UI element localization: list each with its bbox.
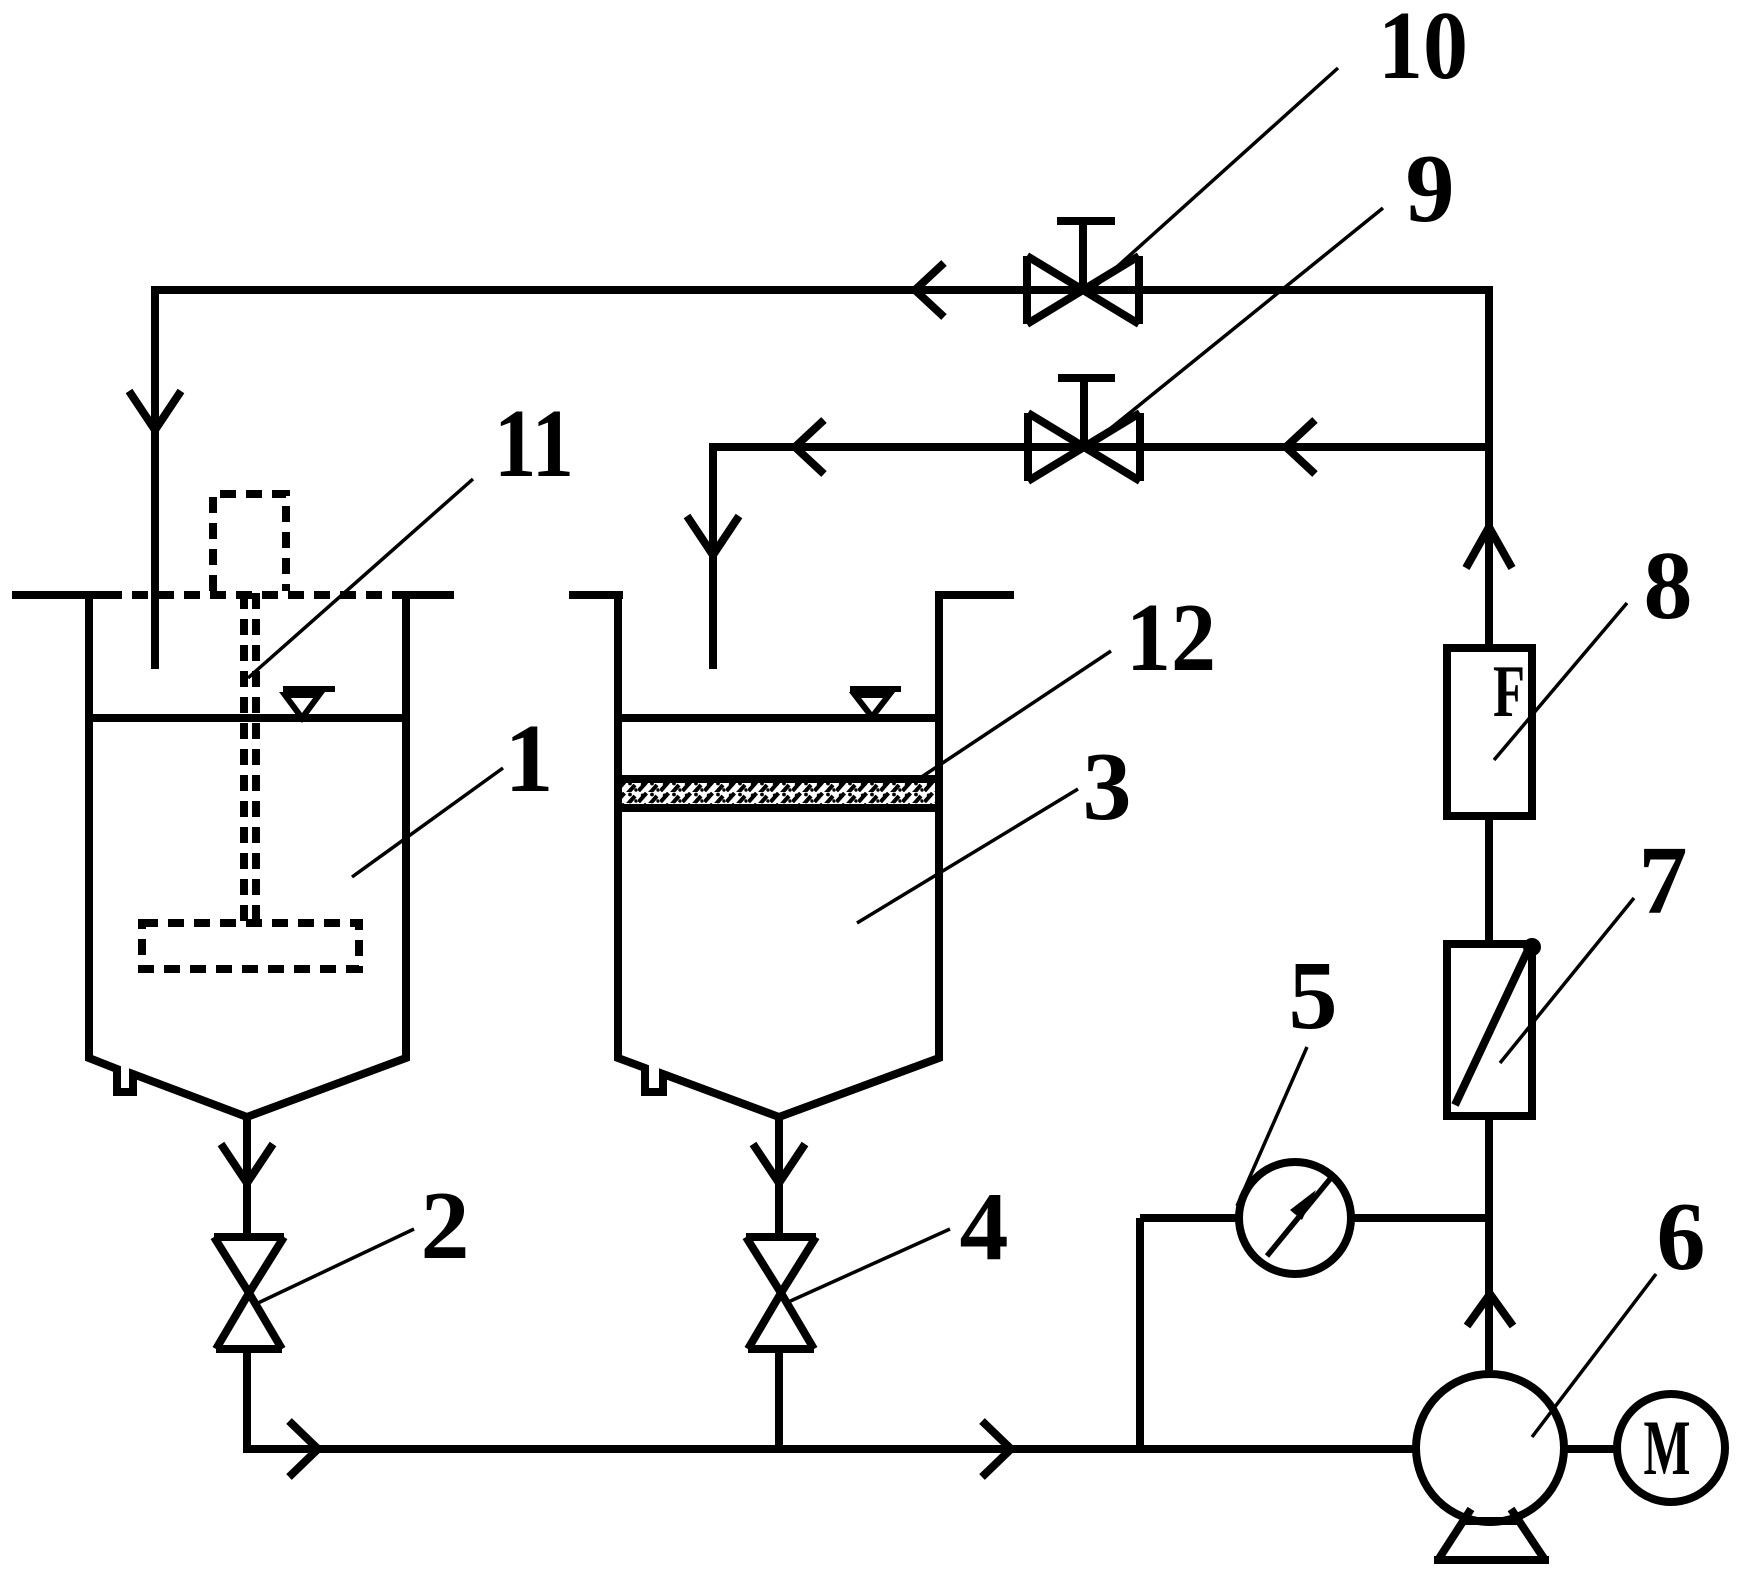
svg-text:F: F [1493, 651, 1525, 733]
svg-text:7: 7 [1639, 827, 1688, 935]
svg-text:4: 4 [960, 1173, 1009, 1281]
svg-text:3: 3 [1083, 733, 1132, 841]
svg-text:1: 1 [505, 705, 554, 813]
svg-text:11: 11 [494, 390, 574, 498]
svg-text:9: 9 [1406, 135, 1455, 243]
svg-text:2: 2 [421, 1172, 470, 1280]
svg-text:5: 5 [1289, 942, 1338, 1050]
svg-text:10: 10 [1378, 0, 1468, 100]
svg-text:12: 12 [1126, 584, 1216, 692]
svg-text:6: 6 [1657, 1183, 1706, 1291]
svg-text:8: 8 [1644, 532, 1693, 640]
svg-text:M: M [1644, 1404, 1691, 1491]
